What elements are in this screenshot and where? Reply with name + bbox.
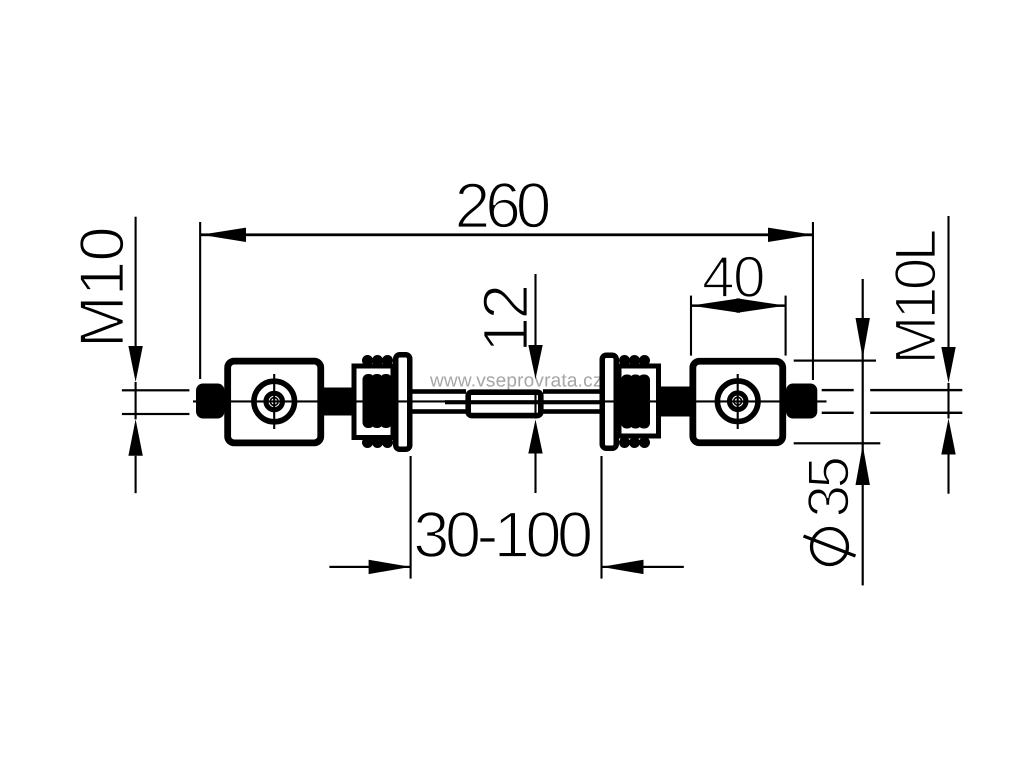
svg-text:M10: M10	[68, 227, 138, 348]
svg-text:260: 260	[455, 169, 550, 241]
svg-text:40: 40	[702, 245, 764, 310]
svg-text:M10L: M10L	[884, 230, 949, 364]
svg-text:30-100: 30-100	[413, 498, 591, 571]
svg-text:35: 35	[797, 457, 862, 517]
svg-text:www.vseprovrata.cz: www.vseprovrata.cz	[429, 371, 603, 392]
svg-text:12: 12	[470, 286, 542, 352]
